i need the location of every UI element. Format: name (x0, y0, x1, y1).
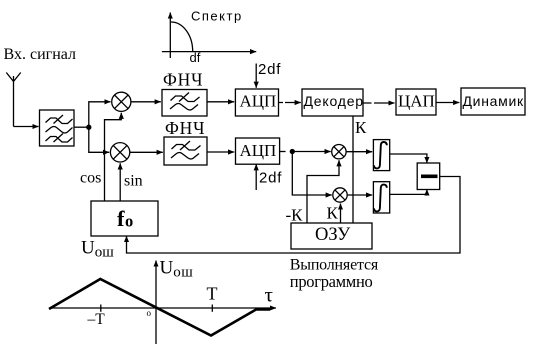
sin wire f0 to mixer2 (119, 163, 121, 201)
svg-text:sin: sin (124, 173, 143, 190)
mixer M1 circle (112, 92, 131, 111)
wire mixer1 to LPF1 (131, 101, 161, 103)
LPF1 block (FNCh) (162, 90, 207, 117)
feedback wire from subtractor to f0 (127, 177, 461, 254)
junction dot B (290, 150, 294, 154)
svg-text:T: T (207, 284, 218, 304)
wire filter to junction (74, 126, 89, 128)
svg-text:2df: 2df (259, 170, 282, 187)
DAC block (396, 89, 436, 115)
svg-text:К: К (327, 204, 339, 223)
wire integrator2 to subtractor bottom (390, 189, 427, 194)
cos wire f0 to mixer1 (105, 113, 122, 201)
wire junction down to mixer2 (89, 127, 109, 152)
spectrum plot horizontal axis (162, 51, 256, 53)
wire mixer2 to LPF2 (130, 151, 163, 153)
Decoder block (302, 89, 363, 116)
svg-text:Вх. сигнал: Вх. сигнал (4, 46, 76, 63)
svg-text:АЦП: АЦП (240, 92, 277, 111)
LPF1 squiggle row1 crossed (171, 93, 200, 102)
junction dot A (87, 125, 91, 129)
svg-text:ОЗУ: ОЗУ (315, 225, 351, 245)
svg-text:-К: -К (286, 206, 304, 225)
mixer M4 cross (335, 190, 345, 200)
wire DAC to Speaker (436, 102, 459, 104)
ADC2 block (236, 138, 280, 164)
svg-text:АЦП: АЦП (240, 141, 277, 160)
svg-text:о: о (147, 308, 152, 318)
svg-text:df: df (190, 50, 201, 65)
svg-text:Uош: Uош (160, 258, 194, 281)
wire RAM to mixer3 (-K) (307, 160, 339, 223)
oscillator f0 block (91, 201, 158, 236)
mixer M2 circle (110, 143, 129, 162)
svg-text:fo: fo (117, 206, 133, 231)
integrator1 sign (374, 142, 387, 168)
integrator2 sign (374, 185, 387, 212)
LPF2 block (FNCh) (164, 137, 207, 165)
svg-text:программно: программно (290, 272, 373, 291)
svg-text:Uош: Uош (81, 238, 114, 261)
waveform vertical axis Uosh (155, 261, 157, 345)
mixer M2 cross (113, 145, 127, 159)
LPF2 squiggle row2 (171, 153, 199, 160)
svg-text:Спектр: Спектр (191, 9, 243, 24)
subtractor block (417, 163, 440, 190)
wire LPF1 to ADC1 (207, 101, 234, 103)
spectrum curve (171, 22, 193, 52)
svg-text:ФНЧ: ФНЧ (165, 118, 205, 138)
error voltage waveform (49, 279, 270, 336)
waveform horizontal axis tau (51, 307, 276, 309)
svg-text:cos: cos (80, 170, 101, 187)
integrator U2 block (373, 182, 389, 213)
mixer M3 cross (334, 147, 344, 157)
wire integrator1 to subtractor top (390, 154, 427, 163)
mixer M3 circle (332, 145, 346, 159)
LPF1 squiggle row2 (170, 104, 198, 111)
2df arrow into ADC2 bottom (255, 164, 257, 190)
wire mixer4 to integrator2 (347, 194, 372, 196)
mixer M4 circle (333, 188, 347, 202)
mixer M1 cross (115, 95, 129, 109)
svg-text:Динамик: Динамик (463, 93, 524, 109)
filter squiggle row 1 (46, 115, 73, 124)
tick T (211, 305, 213, 312)
wire ADC1 to Decoder (279, 102, 301, 104)
svg-text:–T: –T (87, 311, 106, 328)
svg-text:τ: τ (265, 283, 273, 307)
input bandpass filter block (40, 110, 75, 146)
tick -T (100, 305, 102, 312)
wire RAM to mixer4 (K) (340, 204, 342, 224)
wire junction B down to mixer4 (292, 152, 332, 196)
wire mixer3 to integrator1 (346, 151, 372, 153)
svg-text:Выполняется: Выполняется (290, 256, 379, 273)
2df arrow into ADC1 top (255, 64, 257, 88)
Speaker block (461, 88, 525, 115)
wire junction B to mixer3 (292, 151, 330, 153)
wire K from Decoder down to RAM (352, 116, 354, 223)
svg-text:2df: 2df (258, 61, 281, 78)
wire junction up to mixer1 (89, 102, 111, 127)
filter squiggle row 3 (46, 134, 73, 143)
wire antenna to input filter (14, 126, 39, 128)
subtractor minus bar (421, 175, 438, 179)
svg-text:Декодер: Декодер (304, 93, 364, 109)
ADC1 block (235, 89, 278, 116)
dashed wire Decoder to DAC (363, 102, 395, 104)
integrator U1 block (373, 140, 389, 171)
dashed wire ADC2 to junction B (280, 151, 286, 153)
svg-text:К: К (355, 118, 367, 137)
wire LPF2 to ADC2 (207, 151, 234, 153)
filter squiggle row 2 (46, 127, 73, 134)
antenna (6, 73, 20, 127)
svg-text:ЦАП: ЦАП (398, 92, 435, 111)
svg-text:ФНЧ: ФНЧ (163, 70, 203, 90)
LPF2 squiggle row1 crossed (172, 141, 201, 150)
spectrum plot vertical axis (169, 13, 171, 59)
RAM block (OZU) (291, 223, 372, 249)
